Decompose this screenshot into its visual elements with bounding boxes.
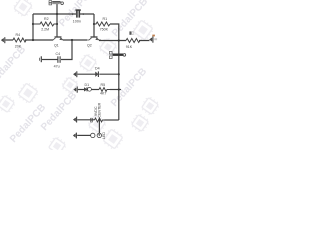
DC jack [74, 87, 78, 93]
circuit layer [1, 1, 157, 139]
node C4 tap [71, 39, 73, 41]
mid row ground jack [73, 71, 76, 77]
svg-text:91K: 91K [126, 45, 133, 49]
label output [152, 35, 157, 41]
svg-text:D1: D1 [85, 83, 90, 87]
svg-text:R5: R5 [101, 83, 106, 87]
label R2 [41, 17, 49, 31]
wire C4 to ground [42, 59, 58, 61]
ground jack row B [73, 133, 76, 139]
svg-text:LED: LED [102, 132, 106, 139]
svg-text:Q2: Q2 [87, 44, 92, 48]
wire R7 left [77, 119, 94, 121]
transistor Q2 [87, 37, 101, 40]
wire mid row right [99, 73, 119, 75]
svg-text:100n: 100n [73, 20, 82, 24]
watermark layer (decorative) [0, 0, 161, 156]
wire left riser input node [32, 14, 34, 40]
LED pad [97, 133, 101, 137]
resistor R4 [13, 38, 26, 42]
wire riser corner to R7 [105, 119, 119, 121]
node mid row junction [118, 73, 120, 75]
resistor R2 [33, 22, 57, 26]
wire R1 right drop [110, 24, 119, 41]
node output/R1 junction [118, 39, 120, 41]
label DC input rotated [94, 102, 102, 117]
svg-text:D4: D4 [95, 67, 100, 71]
label LED rotated [102, 132, 106, 139]
potentiometer VR1 gain [49, 1, 63, 5]
resistor R1 [94, 22, 110, 26]
node LED riser [98, 119, 100, 121]
capacitor C1 100n [72, 10, 83, 18]
resistor R5 [99, 88, 110, 92]
diode D1 [84, 87, 91, 91]
transistor Q1 [50, 37, 65, 40]
wire R5 to right riser [110, 89, 121, 91]
svg-text:20K: 20K [15, 45, 22, 49]
label R4 [15, 33, 22, 48]
svg-text:4K7: 4K7 [100, 92, 106, 96]
wire Q1 base riser [56, 4, 58, 37]
wire pad row [77, 134, 90, 136]
wire top rail [33, 13, 94, 15]
output jack [150, 36, 153, 42]
node Q2/R1 junction [93, 23, 95, 25]
svg-text:750K: 750K [100, 28, 109, 32]
svg-text:R4: R4 [16, 33, 21, 37]
node base Q1 junctions [56, 13, 58, 25]
svg-text:47u: 47u [54, 64, 60, 68]
label D4 [95, 67, 100, 71]
svg-text:2.2M: 2.2M [41, 28, 49, 32]
node R5 output junction [118, 88, 120, 90]
wire Q1 emitter to Q2 collector [63, 39, 87, 41]
input jack [1, 37, 5, 43]
wire output row [99, 40, 150, 42]
label D1 [85, 83, 90, 87]
label R6 value [126, 45, 133, 49]
svg-text:R2: R2 [44, 17, 49, 21]
ground [40, 56, 42, 62]
label R1 [100, 17, 109, 31]
connector marks R7 [91, 118, 93, 122]
label R6 icon [129, 31, 133, 34]
svg-text:CENTER: CENTER [98, 102, 102, 117]
label Q1 [54, 44, 59, 48]
wire long right vertical [118, 41, 120, 121]
svg-text:Q1: Q1 [54, 44, 59, 48]
wire LED riser [98, 120, 100, 133]
diode D4 mid row [96, 71, 99, 77]
label C4 [54, 52, 61, 68]
label R5 [100, 83, 106, 96]
svg-text:R1: R1 [103, 17, 108, 21]
wire Q2 base riser [93, 14, 95, 37]
resistor R7 [95, 118, 105, 122]
node input/R2 junction [32, 23, 34, 41]
potentiometer VR2 volume [109, 52, 125, 59]
label Q2 [87, 44, 92, 48]
label C1 value [73, 20, 82, 24]
ground jack row A [73, 117, 76, 123]
wire D1 to R5 [91, 89, 99, 91]
wire DC jack to D1 [78, 89, 84, 91]
resistor R6 [126, 39, 140, 43]
capacitor C4 [58, 56, 60, 63]
pad ground [91, 133, 95, 137]
wire mid row left [78, 73, 96, 75]
wire input row [6, 39, 54, 41]
wire C4 branch [61, 40, 72, 60]
svg-text:C4: C4 [56, 52, 61, 56]
